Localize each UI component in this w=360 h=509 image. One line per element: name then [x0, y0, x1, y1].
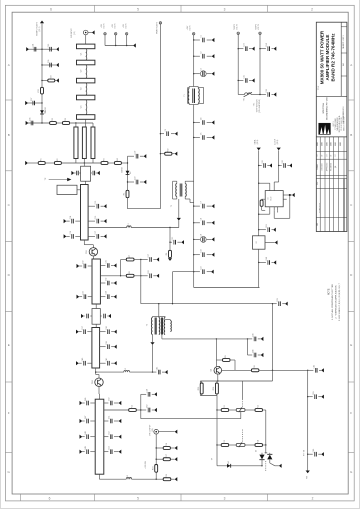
- wire chainA y259.5: [121, 259, 127, 261]
- wire x272.5 down to emitter rail: [272, 370, 274, 381]
- wire bar3 row y363 left: [87, 362, 92, 364]
- wire TEMP3 vertical: [259, 34, 261, 94]
- wire bar3 bottom node: [95, 368, 97, 372]
- terminal: [56, 78, 59, 82]
- svg-text:R10: R10: [254, 365, 256, 368]
- diode D4: [227, 461, 231, 467]
- title block logo/table divider: [316, 136, 347, 138]
- wire bar2 to dc block: [95, 304, 97, 309]
- wire branch row y454.2: [308, 453, 313, 455]
- wire branch row y236 right: [88, 235, 95, 237]
- capacitor C55: [48, 44, 51, 52]
- wire bar4 row y451.7 right: [104, 451, 109, 453]
- svg-text:C58: C58: [29, 118, 31, 121]
- wire coupled lines bottoms to chain: [75, 159, 77, 164]
- svg-text:C1: C1: [201, 35, 203, 37]
- svg-text:C57: C57: [31, 98, 33, 101]
- wire branch R30 row: [160, 153, 164, 155]
- svg-text:W1: W1: [81, 53, 83, 56]
- svg-text:R13: R13: [224, 440, 226, 443]
- terminal: [292, 193, 295, 197]
- svg-text:C7: C7: [201, 201, 203, 203]
- terminal: [285, 302, 288, 306]
- svg-text:REV: REV: [317, 182, 319, 185]
- svg-text:C5: C5: [165, 129, 167, 131]
- wire bar4 row y421 right: [104, 420, 109, 422]
- junction: [152, 371, 153, 372]
- svg-text:C22: C22: [201, 266, 203, 269]
- terminal: [114, 295, 117, 299]
- company logo Spectra Engineering: [319, 123, 331, 134]
- svg-text:TEMP SENSOR: TEMP SENSOR: [256, 99, 258, 113]
- resistor R9 feedback: [216, 359, 222, 361]
- svg-text:R2: R2: [57, 158, 59, 160]
- terminal: [114, 330, 117, 334]
- svg-text:B: B: [350, 133, 352, 137]
- terminal: [175, 430, 178, 434]
- resistor R9: [223, 355, 231, 361]
- svg-text:C9: C9: [201, 234, 203, 236]
- junction: [172, 303, 173, 304]
- wire branch row y355: [248, 354, 253, 356]
- junction: [307, 370, 308, 371]
- svg-text:R1: R1: [41, 158, 43, 160]
- connector P1-3: [126, 33, 128, 35]
- arrow down: [277, 148, 281, 151]
- wire branch row y73.7 polarized: [194, 73, 200, 75]
- terminal: [175, 477, 178, 481]
- capacitor C31: [106, 260, 109, 268]
- capacitor C64: [266, 257, 269, 265]
- terminal: [269, 163, 272, 167]
- node U1 output junction: [289, 194, 291, 196]
- capacitor C58: [29, 118, 32, 126]
- wire TR2 to bar4: [98, 386, 100, 394]
- coupled line section right: [91, 127, 95, 159]
- svg-text:C17: C17: [95, 231, 97, 234]
- capacitor C4: [201, 118, 204, 125]
- wire branch row y94.5 right wire: [260, 94, 266, 96]
- svg-text:A: A: [8, 63, 10, 67]
- wire bar4 row y451.7 left: [90, 451, 95, 453]
- stripline W7 stage2: [92, 259, 100, 304]
- arrow down: [257, 148, 261, 151]
- svg-text:C28: C28: [148, 270, 150, 273]
- wire x242.5 from emitter rail: [242, 381, 244, 399]
- terminal: [25, 161, 28, 165]
- wire branch C21 row: [170, 241, 172, 243]
- svg-text:C34: C34: [106, 291, 108, 294]
- wire stub x247.5 down: [247, 339, 249, 355]
- resistor R14: [255, 440, 263, 446]
- svg-text:L2: L2: [125, 368, 127, 370]
- junction: [41, 80, 42, 81]
- wire bracket row y394.3: [141, 393, 146, 395]
- title block right column line: [340, 22, 342, 96]
- terminal: [252, 78, 255, 82]
- resistor R23: [62, 118, 69, 124]
- wire bracket row y410 cap: [141, 409, 146, 411]
- resistor R30: [165, 149, 172, 155]
- inductor L3: [126, 478, 131, 480]
- wire left loop vertical x127.5: [127, 156, 129, 209]
- resistor R24: [260, 200, 263, 206]
- wire stub x170 down: [169, 228, 171, 251]
- wire branch row y448: [156, 447, 163, 449]
- wire CLOCK vertical: [278, 150, 280, 182]
- connector J1 RF OUTPUT: [154, 429, 159, 434]
- svg-text:R20: R20: [50, 75, 52, 78]
- svg-text:R35: R35: [198, 387, 200, 390]
- resistor R11: [221, 405, 229, 411]
- svg-text:ENGINEERING PTY LTD: ENGINEERING PTY LTD: [326, 97, 328, 120]
- capacitor C50: [109, 398, 112, 406]
- svg-text:DC IN: DC IN: [126, 23, 128, 29]
- capacitor C9: [200, 234, 206, 242]
- capacitor C60: [146, 405, 149, 413]
- wire diode pair bottoms: [261, 460, 263, 466]
- terminal: [321, 452, 324, 456]
- capacitor C57: [31, 98, 34, 106]
- capacitor C13: [95, 201, 98, 209]
- svg-text:C46: C46: [85, 398, 87, 401]
- terminal: [175, 446, 178, 450]
- capacitor C41: [106, 358, 109, 366]
- terminal: [212, 120, 215, 124]
- resistor R19: [163, 474, 171, 480]
- terminal: [181, 240, 184, 244]
- capacitor C2: [201, 51, 204, 58]
- terminal: [26, 121, 29, 125]
- wire bar4 row y410 resistor to bracket: [104, 409, 129, 411]
- wire +26V rail vertical: [193, 35, 195, 87]
- terminal: [175, 132, 178, 136]
- junction: [258, 214, 259, 215]
- wire rail y372.1: [96, 371, 124, 373]
- connector J2 RF INPUT: [83, 30, 88, 35]
- resistor R13: [221, 440, 229, 446]
- svg-text:F: F: [350, 411, 352, 415]
- svg-text:R16: R16: [166, 443, 168, 446]
- wire branch row y459.2: [156, 458, 163, 460]
- terminal: [261, 353, 264, 357]
- terminal: [119, 401, 122, 405]
- terminal: [211, 270, 214, 274]
- svg-text:C59: C59: [146, 389, 148, 392]
- wire matching box to bar1: [77, 189, 81, 191]
- svg-text:TITLE: TITLE: [318, 86, 320, 90]
- inductor W3: [86, 83, 87, 95]
- terminal: [165, 370, 168, 374]
- wire branch row y103 left: [27, 102, 42, 104]
- svg-text:MX800.SCH: MX800.SCH: [319, 203, 321, 213]
- wire Z5 to coupled lines: [85, 119, 87, 127]
- capacitor C21: [172, 237, 175, 245]
- terminal: [92, 30, 95, 34]
- svg-text:C66: C66: [313, 449, 315, 452]
- svg-text:R11: R11: [224, 405, 226, 408]
- capacitor C54: [32, 44, 35, 52]
- capacitor C26: [266, 89, 269, 97]
- terminal: [156, 257, 159, 261]
- terminal below R6: [168, 258, 172, 261]
- svg-text:R22: R22: [52, 118, 54, 121]
- capacitor C1: [201, 35, 204, 42]
- svg-text:C49: C49: [85, 446, 87, 449]
- resistor R6: [166, 250, 171, 257]
- svg-text:R3: R3: [104, 158, 106, 160]
- connector P2: [193, 33, 195, 35]
- wire bar4 row y403 left: [90, 402, 95, 404]
- zone dividers right strip: [348, 99, 354, 101]
- capacitor C7: [201, 201, 204, 208]
- wire PWR VOLTS vertical: [159, 24, 161, 209]
- wire DATA vertical: [258, 150, 260, 236]
- svg-text:CHECKED: CHECKED: [322, 162, 324, 170]
- stripline Z3: [77, 78, 95, 83]
- terminal: [76, 330, 79, 334]
- junction: [127, 162, 128, 163]
- wire TEMP1 vertical: [41, 23, 43, 123]
- junction: [265, 444, 266, 445]
- arrow down: [150, 342, 154, 345]
- svg-text:+26V PA: +26V PA: [144, 461, 147, 469]
- inductor W2: [86, 65, 87, 79]
- transistor TR1: [86, 248, 97, 256]
- svg-text:DT: DT: [335, 154, 337, 156]
- wire bar2 row y266 left: [88, 265, 92, 267]
- svg-text:R14: R14: [258, 440, 260, 443]
- svg-text:C55: C55: [48, 44, 50, 47]
- connector TP1: [159, 22, 161, 24]
- svg-text:(J3-3): (J3-3): [277, 139, 279, 144]
- svg-text:DT: DT: [317, 154, 319, 156]
- stripline W8 stage3: [92, 328, 100, 369]
- wire T3 bottom left leg: [152, 335, 154, 343]
- zone dividers left strip: [5, 99, 12, 101]
- wire rail y227.5 with L1: [88, 227, 127, 229]
- wire bar2 row y296.7 left: [88, 296, 92, 298]
- svg-text:C23: C23: [244, 43, 246, 46]
- svg-text:C52: C52: [109, 431, 111, 434]
- resistor R10: [251, 365, 259, 371]
- connector TP3: [259, 32, 261, 34]
- svg-text:UNIT 3: UNIT 3: [333, 121, 335, 126]
- dc block box stage2: [92, 309, 100, 325]
- wire branch row y122.5: [194, 122, 200, 124]
- capacitor C32: [106, 278, 109, 286]
- junction: [41, 49, 42, 50]
- wire chainB from bar2: [100, 275, 126, 277]
- svg-text:C62: C62: [282, 160, 284, 163]
- svg-text:C3: C3: [201, 68, 203, 70]
- diode D3 thermal pair: [256, 450, 273, 460]
- terminal: [321, 395, 324, 399]
- svg-text:(ON HEATSINK): (ON HEATSINK): [258, 99, 261, 113]
- svg-text:T3: T3: [147, 324, 149, 326]
- svg-text:C27: C27: [148, 254, 150, 257]
- capacitor C36: [100, 315, 101, 317]
- resistor R21: [38, 87, 43, 94]
- resistor R2: [54, 158, 61, 164]
- transformer T1: [184, 87, 204, 105]
- svg-text:R21: R21: [38, 89, 40, 92]
- svg-text:C19: C19: [134, 151, 136, 154]
- capacitor C65: [313, 391, 316, 399]
- svg-text:C14: C14: [70, 216, 72, 219]
- terminal: [275, 240, 278, 244]
- wire branch row y222.8: [194, 222, 200, 224]
- wire branch row y49 right: [42, 48, 56, 50]
- svg-text:C56: C56: [48, 60, 50, 63]
- terminal: [289, 163, 292, 167]
- title block outline: [316, 22, 347, 231]
- capacitor C6: [201, 133, 204, 140]
- wire branch row y48.7 left wire: [238, 48, 243, 50]
- svg-text:C29: C29: [277, 298, 279, 301]
- wire bar3 to TR2: [95, 372, 97, 374]
- svg-text:C50: C50: [109, 398, 111, 401]
- terminal: [212, 253, 215, 257]
- terminal: [212, 38, 215, 42]
- thermal couple dash: [265, 461, 267, 472]
- stripline Z1: [77, 44, 95, 49]
- wire branch C5 row: [160, 133, 164, 135]
- svg-text:TH1: TH1: [254, 103, 256, 106]
- svg-text:MC33: MC33: [270, 196, 272, 200]
- svg-text:SHEET 1 OF 1: SHEET 1 OF 1: [343, 34, 345, 48]
- wire: [61, 162, 101, 164]
- wire bar3 row y331.7 left: [87, 331, 92, 333]
- capacitor C37: [82, 326, 85, 334]
- wire branch row y80.5 left wire: [238, 80, 243, 82]
- svg-text:L3: L3: [127, 475, 129, 477]
- capacitor C11: [79, 172, 80, 174]
- svg-text:(J3-2): (J3-2): [257, 139, 259, 144]
- svg-text:BAND R2 746-764MHz: BAND R2 746-764MHz: [331, 33, 336, 82]
- capacitor C34: [106, 291, 109, 299]
- wire R35 R36 bottom rail: [200, 395, 217, 397]
- svg-text:(J1): (J1): [152, 428, 154, 431]
- svg-text:PTT IN: PTT IN: [303, 449, 305, 456]
- svg-text:R8: R8: [129, 271, 131, 273]
- terminal: [56, 47, 59, 51]
- wire bar3 row y363 right: [100, 362, 106, 364]
- resistor R5: [124, 190, 129, 197]
- svg-text:T2: T2: [171, 205, 173, 207]
- wire +26V rail bottom corner: [194, 287, 260, 289]
- svg-text:R7: R7: [129, 255, 131, 257]
- svg-text:R23: R23: [65, 118, 67, 121]
- coupled line section mid: [82, 127, 86, 159]
- svg-text:W2: W2: [81, 70, 83, 73]
- svg-text:C44: C44: [252, 350, 254, 353]
- terminal: [80, 435, 83, 439]
- inductor W4: [86, 100, 87, 115]
- wire branch row y262.5: [259, 262, 266, 264]
- capacitor C56: [48, 60, 51, 68]
- svg-text:C32: C32: [106, 278, 108, 281]
- terminal: [133, 43, 136, 47]
- svg-text:RF INPUT: RF INPUT: [71, 28, 73, 38]
- terminal: [212, 72, 215, 76]
- resistor R18: [152, 465, 157, 473]
- svg-text:R36: R36: [213, 387, 215, 390]
- wire bar2 row y266 right: [100, 265, 105, 267]
- capacitor C22: [201, 266, 204, 274]
- wire y465.8 anode rail: [217, 465, 262, 467]
- wire DATA to IC pin: [259, 182, 270, 184]
- svg-text:C2: C2: [201, 51, 203, 53]
- wire bar4 row y403 right: [104, 402, 109, 404]
- terminal: [274, 260, 277, 264]
- transistor Q2: [211, 366, 222, 374]
- wire bar4 bottom to rail y479.2: [98, 474, 100, 479]
- terminal: [76, 361, 79, 365]
- svg-text:DT: DT: [331, 154, 333, 156]
- coupled line section left: [74, 127, 78, 159]
- trimpot RV2 wiper dash: [242, 430, 244, 444]
- svg-text:5: 5: [137, 497, 139, 501]
- wire rail y338.9: [162, 338, 248, 340]
- capacitor C20: [134, 177, 137, 185]
- svg-text:3: 3: [224, 7, 226, 11]
- svg-text:VOLTS: VOLTS: [236, 23, 238, 30]
- svg-text:W3: W3: [81, 87, 83, 90]
- wire bar2 row y296.7 right: [100, 296, 105, 298]
- capacitor C63: [266, 224, 269, 232]
- resistor R36: [213, 383, 218, 394]
- arrow down: [177, 218, 181, 221]
- wire T3 bottom right leg to rail y338.9: [161, 335, 163, 339]
- wire branch row y48.7 right wire: [260, 48, 266, 50]
- svg-text:R15: R15: [132, 405, 134, 408]
- regulator U2: [253, 236, 266, 249]
- svg-text:5: 5: [137, 7, 139, 11]
- revision table heavy divider: [343, 179, 345, 232]
- title block title/logo divider: [316, 95, 347, 97]
- capacitor C30: [82, 261, 85, 269]
- svg-text:(J3-1): (J3-1): [39, 26, 41, 31]
- capacitor C51: [109, 416, 112, 424]
- capacitor C25: [244, 75, 247, 83]
- wire CLOCK to IC pin: [274, 181, 279, 183]
- wire R35 R36 top ties: [199, 381, 201, 383]
- capacitor C66: [313, 449, 316, 457]
- resistor R8: [126, 271, 134, 277]
- wire loop bottom y208.7: [128, 208, 161, 210]
- svg-text:C25: C25: [244, 75, 246, 78]
- diode D2: [126, 171, 132, 175]
- wire chain y163: [28, 162, 38, 164]
- svg-text:C53: C53: [109, 446, 111, 449]
- resistor R17: [163, 454, 170, 460]
- terminal: [25, 101, 28, 105]
- capacitor C49: [85, 446, 88, 454]
- svg-text:C33: C33: [82, 291, 84, 294]
- wire connector stub right: [88, 32, 92, 34]
- inductor L1: [127, 226, 132, 228]
- wire branch row y271.7: [194, 271, 200, 273]
- terminal: [26, 47, 29, 51]
- terminal PTT bottom: [306, 471, 310, 474]
- wire branch row y229.7: [259, 229, 266, 231]
- svg-text:C60: C60: [146, 405, 148, 408]
- svg-text:C10: C10: [201, 249, 203, 252]
- terminal: [212, 135, 215, 139]
- svg-text:C20: C20: [134, 177, 136, 180]
- svg-text:C61: C61: [262, 160, 264, 163]
